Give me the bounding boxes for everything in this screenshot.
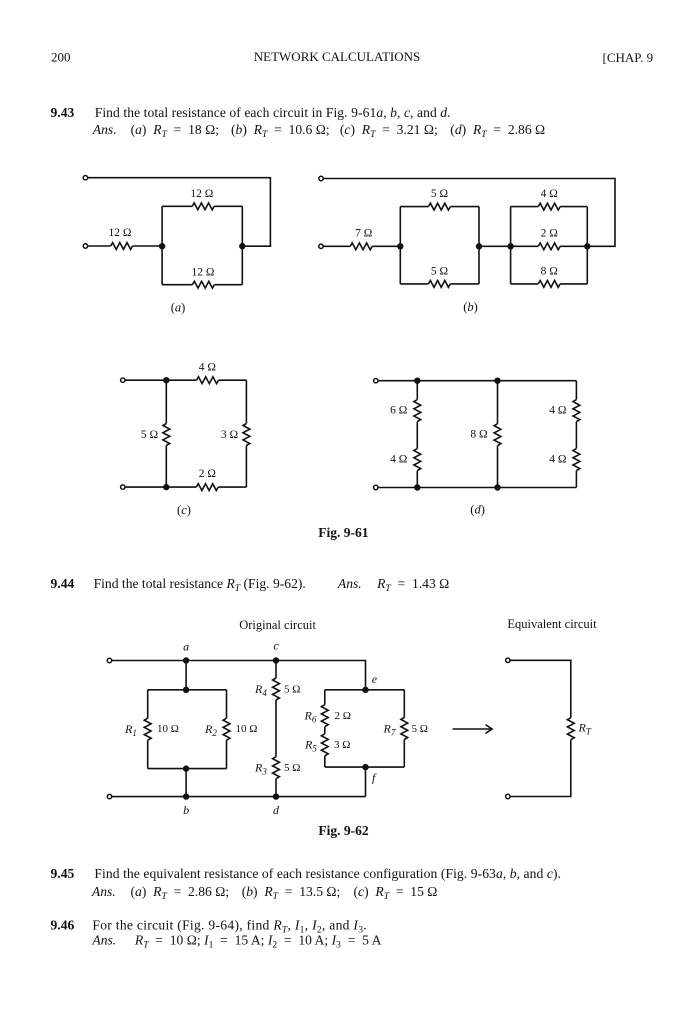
terminal top-left (b) [319, 176, 323, 180]
svg-text:8 Ω: 8 Ω [541, 265, 558, 277]
svg-text:4 Ω: 4 Ω [390, 454, 407, 466]
wire R7 lower [403, 740, 405, 768]
svg-text:3 Ω: 3 Ω [221, 429, 238, 441]
wire R1 upper [147, 690, 149, 718]
wire equivalent top [510, 660, 571, 717]
resistor 12 ohm bottom branch (a) [192, 281, 214, 288]
resistor 5 ohm left (c) [163, 424, 170, 446]
svg-text:5 Ω: 5 Ω [284, 762, 300, 774]
wire right vertical lower (c) [245, 446, 247, 488]
circuit (d) of Fig. 9-61 [374, 378, 580, 517]
resistor 5 ohm bottom branch (b) [428, 281, 450, 288]
arrow original to equivalent [453, 725, 492, 734]
arrow shaft [453, 728, 492, 730]
wire bottom branch left (a) [162, 284, 192, 286]
node 4 (b) [584, 243, 590, 249]
svg-text:Ans.: Ans. [337, 576, 362, 591]
wire R4 to R3 [275, 700, 277, 757]
svg-text:4 Ω: 4 Ω [541, 188, 558, 200]
wire a to parallel box [185, 661, 187, 690]
svg-text:a: a [183, 639, 189, 653]
wire terminal to R series (a) [88, 245, 111, 247]
node bottom branch2 (d) [494, 484, 500, 490]
resistor 8 ohm bottom branch (b) [538, 281, 560, 288]
wire box2 bottom right (b) [560, 283, 587, 285]
resistor 5 ohm top branch (b) [428, 203, 450, 210]
wire top rail a-c-e [112, 661, 366, 690]
wire top branch left (c) [166, 379, 196, 381]
svg-text:6 Ω: 6 Ω [390, 405, 407, 417]
wire box1 bottom left (b) [400, 283, 428, 285]
wire f to bottom rail [365, 767, 367, 797]
wire box1 top right (b) [450, 206, 479, 208]
wire box2 middle right (b) [560, 245, 587, 247]
svg-text:10 Ω: 10 Ω [157, 723, 179, 735]
wire box to b [185, 769, 187, 797]
svg-text:7 Ω: 7 Ω [355, 227, 372, 239]
node a [183, 657, 189, 663]
circuit (a) of Fig. 9-61 [83, 176, 270, 315]
terminal bottom-left (a) [83, 244, 87, 248]
wire branch3 bottom (d) [575, 471, 577, 488]
svg-text:9.46: 9.46 [51, 918, 75, 933]
wire bottom rail (d) [378, 487, 576, 489]
wire R2 lower [226, 740, 228, 768]
svg-text:Ans.: Ans. [92, 122, 117, 137]
svg-text:Ans.: Ans. [91, 933, 116, 948]
node 3 (b) [507, 243, 513, 249]
svg-text:b: b [183, 803, 189, 817]
resistor 2 ohm bottom (c) [196, 484, 218, 491]
wire left vertical lower (c) [165, 446, 167, 488]
node top branch1 (d) [414, 378, 420, 384]
wire left vertical upper (c) [165, 380, 167, 423]
wire bottom branch right (c) [218, 486, 246, 488]
wire equivalent bottom [510, 740, 571, 797]
node bottom (c) [163, 484, 169, 490]
svg-text:Ans.: Ans. [91, 884, 116, 899]
wire branch2 top (d) [497, 381, 499, 424]
wire node to terminal bottom (c) [125, 486, 166, 488]
node 1 (b) [397, 243, 403, 249]
wire box2 middle left (b) [511, 245, 539, 247]
wire box1 right vertical (b) [478, 207, 480, 284]
node top branch2 (d) [494, 378, 500, 384]
svg-text:2 Ω: 2 Ω [335, 710, 351, 722]
svg-text:200: 200 [51, 50, 71, 65]
svg-text:4 Ω: 4 Ω [199, 361, 216, 373]
node bottom branch1 (d) [414, 484, 420, 490]
wire top feedback (b) [323, 179, 615, 247]
wire branch3 top (d) [575, 381, 577, 400]
resistor 4 ohm top (c) [197, 377, 219, 384]
svg-text:12 Ω: 12 Ω [190, 188, 213, 200]
svg-text:9.43: 9.43 [51, 105, 75, 120]
svg-text:d: d [273, 803, 280, 817]
wire top branch right (a) [214, 205, 242, 207]
wire R7 to node1 (b) [372, 245, 400, 247]
svg-text:Fig. 9-61: Fig. 9-61 [318, 525, 368, 540]
wire top branch left (a) [162, 205, 192, 207]
wire R5 lower [324, 756, 326, 767]
svg-text:12 Ω: 12 Ω [192, 267, 215, 279]
resistor R2 10 ohm [223, 718, 230, 740]
resistor 3 ohm right (c) [243, 424, 250, 446]
resistor RT [567, 718, 574, 740]
svg-text:12 Ω: 12 Ω [108, 227, 131, 239]
problem 9.43 [51, 105, 546, 140]
resistor 12 ohm top branch (a) [192, 203, 214, 210]
svg-text:8 Ω: 8 Ω [470, 429, 487, 441]
terminal top-left (c) [121, 378, 125, 382]
resistor R1 10 ohm [144, 718, 151, 740]
wire branch1 middle (d) [416, 422, 418, 449]
wire box bottom R1R2 [148, 768, 227, 770]
wire box2 left vertical (b) [510, 207, 512, 284]
wire right box top [325, 689, 405, 691]
node f [362, 764, 368, 770]
svg-text:Equivalent circuit: Equivalent circuit [507, 617, 597, 631]
problem 9.44 [51, 576, 450, 594]
svg-text:Find the equivalent resistance: Find the equivalent resistance of each r… [94, 866, 561, 882]
resistor 4 ohm branch3 upper (d) [573, 400, 580, 422]
resistor 4 ohm branch3 lower (d) [573, 449, 580, 471]
wire R3 to d [275, 779, 277, 797]
wire left branch vertical (a) [161, 206, 163, 284]
node b [183, 793, 189, 799]
wire branch3 middle (d) [575, 422, 577, 449]
svg-text:9.45: 9.45 [51, 866, 75, 881]
terminal top-left 9-62 [107, 658, 111, 662]
wire branch1 top (d) [416, 381, 418, 400]
svg-text:5 Ω: 5 Ω [284, 684, 300, 696]
problem 9.45 [51, 866, 562, 902]
wire box top R1R2 [148, 689, 227, 691]
wire R series to node (a) [133, 245, 163, 247]
resistor 4 ohm branch1 (d) [414, 449, 421, 471]
resistor 8 ohm branch2 (d) [494, 424, 501, 446]
node left junction (a) [159, 243, 165, 249]
svg-text:5 Ω: 5 Ω [431, 188, 448, 200]
svg-text:e: e [372, 672, 378, 686]
wire top rail (d) [378, 380, 576, 382]
svg-text:c: c [273, 639, 279, 653]
wire right box bottom [325, 766, 405, 768]
wire branch2 bottom (d) [497, 446, 499, 488]
Fig. 9-62 equivalent circuit [506, 617, 598, 799]
terminal top-left (a) [83, 176, 87, 180]
svg-text:(c): (c) [177, 503, 191, 517]
wire box1 left vertical (b) [399, 207, 401, 284]
node top (c) [163, 377, 169, 383]
svg-text:2 Ω: 2 Ω [541, 228, 558, 240]
resistor 2 ohm middle branch (b) [538, 243, 560, 250]
page header [51, 49, 653, 65]
wire top feedback (a) [88, 178, 271, 247]
wire R7 upper [403, 690, 405, 718]
svg-text:Fig. 9-62: Fig. 9-62 [318, 823, 368, 838]
wire c to R4 [275, 661, 277, 679]
svg-text:9.44: 9.44 [51, 576, 75, 591]
svg-text:[CHAP. 9: [CHAP. 9 [603, 50, 654, 65]
terminal top equivalent [506, 658, 510, 662]
svg-text:Original circuit: Original circuit [239, 618, 316, 632]
wire R1 lower [147, 740, 149, 768]
wire branch1 bottom (d) [416, 471, 418, 488]
svg-text:Find the total resistance of e: Find the total resistance of each circui… [95, 105, 451, 120]
svg-text:4 Ω: 4 Ω [549, 454, 566, 466]
wire node2 to node3 (b) [479, 245, 511, 247]
terminal bottom-left (b) [319, 244, 323, 248]
resistor 4 ohm top branch (b) [538, 203, 560, 210]
arrow head [486, 725, 493, 734]
svg-text:3 Ω: 3 Ω [334, 739, 350, 751]
resistor 12 ohm series (a) [111, 243, 133, 250]
svg-text:NETWORK CALCULATIONS: NETWORK CALCULATIONS [254, 49, 420, 64]
terminal top-left (d) [374, 379, 378, 383]
wire top branch right (c) [219, 379, 247, 381]
wire terminal to node top (c) [125, 379, 166, 381]
node box bottom center [183, 765, 189, 771]
wire bottom branch right (a) [214, 284, 242, 286]
svg-text:5 Ω: 5 Ω [431, 265, 448, 277]
resistor R5 3 ohm [321, 734, 328, 756]
wire right branch vertical (a) [241, 206, 243, 284]
resistor 6 ohm branch1 (d) [414, 400, 421, 422]
wire bottom branch left (c) [166, 486, 196, 488]
wire terminal to R7 (b) [323, 245, 350, 247]
Fig. 9-62 original circuit [107, 618, 428, 817]
wire box2 bottom left (b) [511, 283, 539, 285]
svg-text:(d): (d) [470, 503, 485, 517]
resistor R7 5 ohm [401, 718, 408, 740]
problem 9.46 [51, 918, 382, 951]
wire right vertical upper (c) [245, 380, 247, 423]
node box top center [183, 687, 189, 693]
terminal bottom-left 9-62 [107, 794, 111, 798]
svg-text:2 Ω: 2 Ω [199, 468, 216, 480]
resistor R3 5 ohm [273, 757, 280, 779]
terminal bottom-left (d) [374, 485, 378, 489]
svg-text:(b): (b) [463, 300, 478, 314]
resistor R6 2 ohm [321, 705, 328, 727]
wire R2 upper [226, 690, 228, 718]
wire bottom rail b-d-f [112, 796, 366, 798]
circuit (c) of Fig. 9-61 [121, 361, 250, 517]
resistor 7 ohm series (b) [350, 243, 372, 250]
node d [273, 793, 279, 799]
terminal bottom-left (c) [121, 485, 125, 489]
svg-text:10 Ω: 10 Ω [236, 723, 258, 735]
terminal bottom equivalent [506, 794, 510, 798]
svg-text:4 Ω: 4 Ω [549, 405, 566, 417]
wire box1 bottom right (b) [450, 283, 479, 285]
wire R6 upper [324, 690, 326, 705]
wire box2 right vertical (b) [586, 207, 588, 284]
node 2 (b) [476, 243, 482, 249]
svg-text:5 Ω: 5 Ω [141, 429, 158, 441]
svg-text:5 Ω: 5 Ω [412, 723, 428, 735]
wire R6 to R5 [324, 727, 326, 734]
node right junction (a) [239, 243, 245, 249]
node e [362, 687, 368, 693]
wire box1 top left (b) [400, 206, 428, 208]
circuit (b) of Fig. 9-61 [319, 176, 615, 314]
wire box2 top right (b) [560, 206, 587, 208]
resistor R4 5 ohm [273, 678, 280, 700]
node c [273, 657, 279, 663]
svg-text:(a): (a) [171, 300, 186, 314]
wire box2 top left (b) [511, 206, 539, 208]
